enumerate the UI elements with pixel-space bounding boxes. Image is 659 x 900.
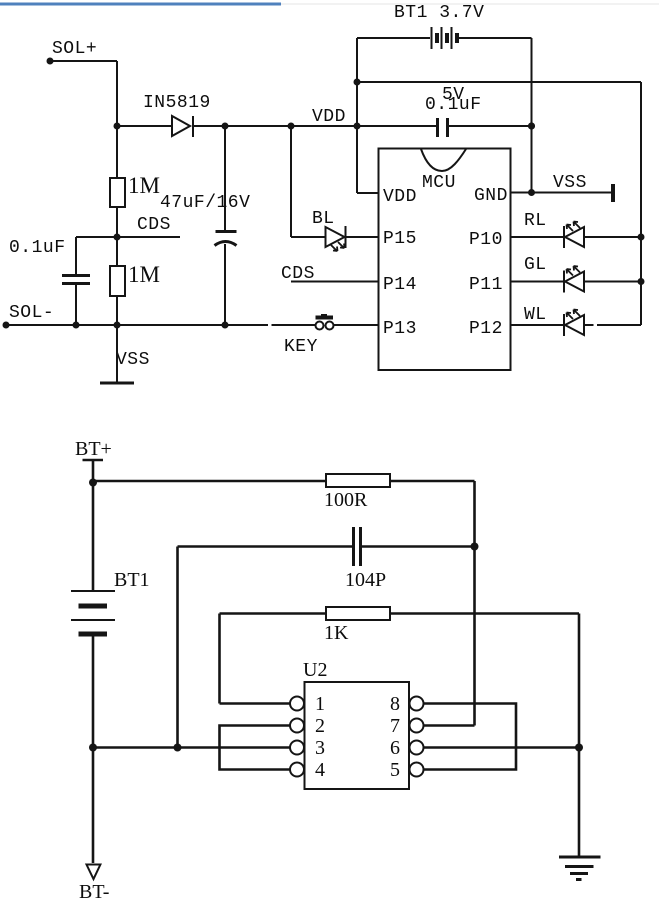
- svg-text:WL: WL: [524, 305, 547, 325]
- svg-text:SOL-: SOL-: [9, 303, 54, 323]
- wire bottom rail y325: [6, 324, 316, 326]
- wire left vertical x117: [116, 61, 118, 325]
- svg-text:BT-: BT-: [79, 881, 109, 900]
- wire battery left drop x357: [356, 38, 358, 193]
- svg-text:BT1 3.7V: BT1 3.7V: [394, 3, 484, 23]
- junction dot 104P drop/pin3: [174, 744, 182, 752]
- wire 1K left drop x219.5: [218, 614, 221, 704]
- junction dot pin6/bus: [575, 744, 583, 752]
- svg-text:GND: GND: [474, 186, 508, 206]
- node BT+: [75, 438, 112, 590]
- MCU U1 box: [379, 149, 511, 371]
- svg-text:1: 1: [315, 693, 325, 715]
- diode D1 IN5819: [143, 93, 211, 137]
- junction dot x531.5 y192.5: [528, 189, 535, 196]
- capacitor C2 47uF/16V: [160, 126, 250, 325]
- svg-text:5: 5: [390, 759, 400, 781]
- junction dots on bottom rail: [73, 322, 229, 329]
- node BT- arrow: [79, 865, 109, 900]
- svg-text:U2: U2: [303, 659, 327, 681]
- LED BL: [291, 126, 379, 251]
- svg-text:1M: 1M: [128, 262, 160, 287]
- svg-text:7: 7: [390, 715, 400, 737]
- svg-text:P13: P13: [383, 319, 417, 339]
- wire VDD pin: [357, 192, 379, 194]
- svg-text:P14: P14: [383, 275, 417, 295]
- svg-text:104P: 104P: [345, 569, 386, 591]
- svg-text:RL: RL: [524, 211, 547, 231]
- svg-text:8: 8: [390, 693, 400, 715]
- junction dot battery/pin3: [89, 744, 97, 752]
- LED WL: [511, 305, 642, 336]
- svg-text:1M: 1M: [128, 173, 160, 198]
- svg-text:VSS: VSS: [116, 350, 150, 370]
- switch KEY: [284, 314, 379, 357]
- junction dot 104P right: [471, 543, 479, 551]
- pin 2 circle: [290, 719, 304, 733]
- pin 3 circle: [290, 741, 304, 755]
- svg-text:0.1uF: 0.1uF: [425, 95, 482, 115]
- svg-text:VDD: VDD: [383, 187, 417, 207]
- node CDS right / wire P14: [281, 264, 379, 284]
- node SOL+: [47, 39, 118, 65]
- svg-text:CDS: CDS: [137, 215, 171, 235]
- svg-text:BT1: BT1: [114, 569, 150, 591]
- svg-text:P11: P11: [469, 275, 503, 295]
- svg-text:KEY: KEY: [284, 337, 318, 357]
- svg-text:IN5819: IN5819: [143, 93, 211, 113]
- svg-text:6: 6: [390, 737, 400, 759]
- wire pin1: [220, 702, 291, 705]
- svg-text:1K: 1K: [324, 622, 349, 644]
- pin 6 circle: [410, 741, 424, 755]
- svg-text:100R: 100R: [324, 489, 368, 511]
- battery BT1 3.7V: [357, 3, 532, 49]
- node SOL-: [3, 303, 55, 329]
- wire battery right drop x531.5: [531, 38, 533, 193]
- junction dot x357 y82: [354, 79, 361, 86]
- junction dots on VDD rail: [114, 123, 536, 130]
- wire pin2-pin4 bracket: [220, 726, 291, 770]
- battery BT1 (bottom): [71, 569, 150, 863]
- svg-text:VDD: VDD: [312, 107, 346, 127]
- svg-text:GL: GL: [524, 255, 547, 275]
- wire pin6: [424, 746, 580, 749]
- svg-text:0.1uF: 0.1uF: [9, 238, 66, 258]
- wire 100R right to bus: [390, 481, 475, 726]
- svg-text:BT+: BT+: [75, 438, 112, 460]
- wire 104P left drop x177.5: [176, 547, 179, 748]
- node CDS left: [76, 215, 180, 241]
- wire pin3 from battery: [93, 746, 290, 749]
- svg-text:4: 4: [315, 759, 325, 781]
- resistor R2 1M: [110, 262, 160, 296]
- junction dot x531.5 y126: [528, 123, 535, 130]
- svg-text:47uF/16V: 47uF/16V: [160, 193, 250, 213]
- svg-text:MCU: MCU: [422, 173, 456, 193]
- wire pin8-pin5 bracket: [424, 704, 517, 770]
- IC U2 box: [303, 659, 409, 789]
- capacitor C4 104P: [178, 527, 475, 591]
- pin 8 circle: [410, 697, 424, 711]
- resistor R1 1M: [110, 173, 160, 207]
- svg-text:P15: P15: [383, 229, 417, 249]
- capacitor C1 0.1uF 5V: [425, 85, 482, 137]
- pin 5 circle: [410, 763, 424, 777]
- pin 7 circle: [410, 719, 424, 733]
- wire top rail y82: [357, 81, 641, 83]
- wire right bus x641: [640, 82, 642, 325]
- pin 1 circle: [290, 697, 304, 711]
- LED GL: [511, 255, 645, 293]
- wire to 100R: [93, 480, 326, 483]
- svg-text:3: 3: [315, 737, 325, 759]
- header faint line: [281, 3, 659, 5]
- svg-text:P10: P10: [469, 230, 503, 250]
- svg-text:SOL+: SOL+: [52, 39, 97, 59]
- resistor R4 1K: [220, 607, 580, 644]
- ground VSS: [100, 325, 150, 383]
- LED RL: [511, 211, 645, 248]
- wire pin7: [424, 724, 475, 727]
- wire GND pin to VSS terminal: [511, 173, 614, 202]
- wire right bus x579: [578, 614, 581, 858]
- svg-text:VSS: VSS: [553, 173, 587, 193]
- junction dot BT+ rail: [89, 479, 97, 487]
- ground earth bottom right: [559, 857, 601, 880]
- svg-text:BL: BL: [312, 209, 335, 229]
- header blue line: [0, 3, 281, 6]
- wire VDD rail y126: [117, 125, 532, 127]
- pin 4 circle: [290, 763, 304, 777]
- capacitor C3 0.1uF: [9, 237, 90, 325]
- svg-text:P12: P12: [469, 319, 503, 339]
- svg-text:2: 2: [315, 715, 325, 737]
- resistor R3 100R: [324, 474, 390, 511]
